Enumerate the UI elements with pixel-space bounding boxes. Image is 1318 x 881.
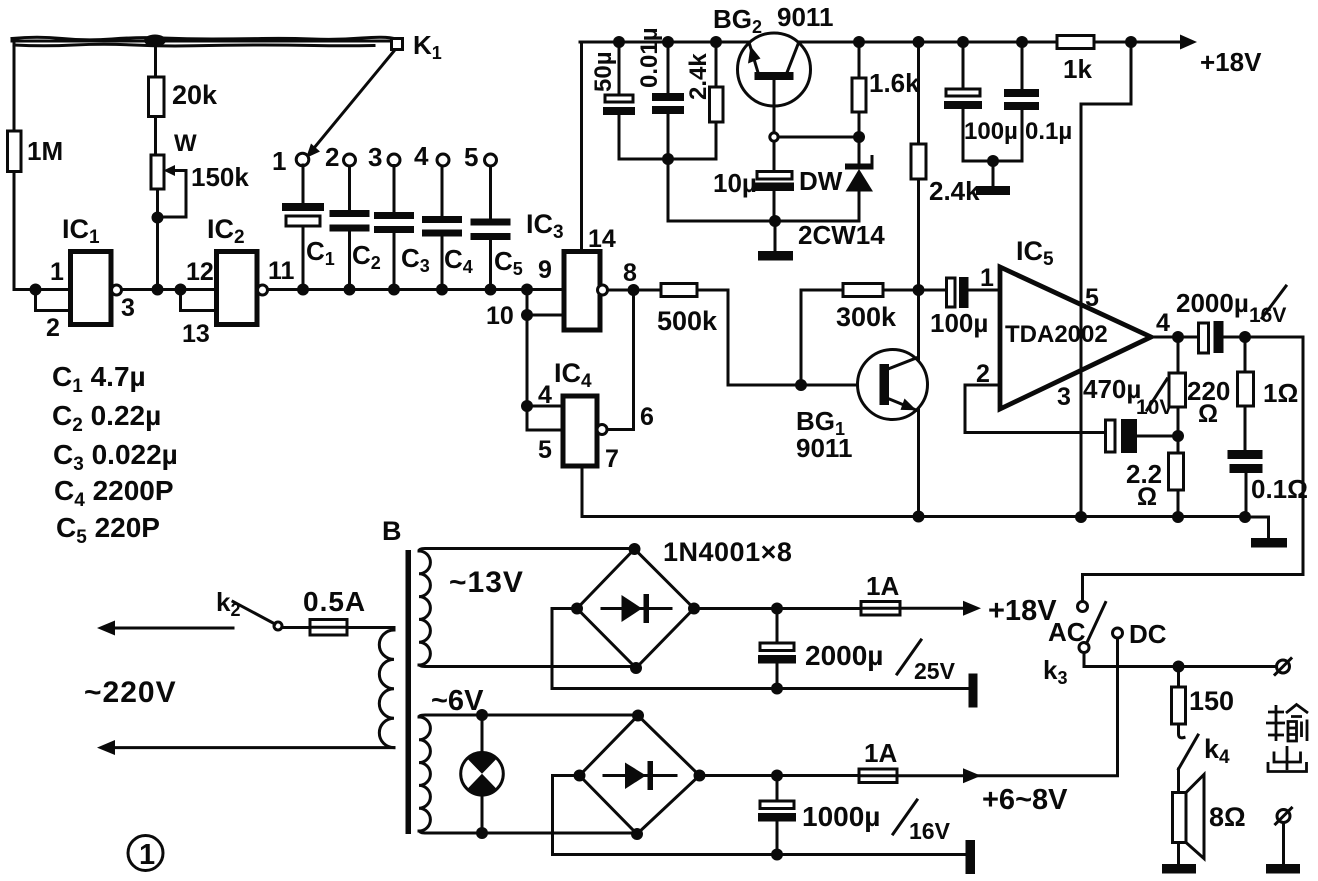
resistor 300k	[836, 284, 897, 333]
svg-text:~13V: ~13V	[449, 566, 524, 599]
svg-text:5: 5	[1085, 284, 1099, 312]
svg-text:100µ: 100µ	[930, 308, 988, 338]
wire: 300k to 100u input cap	[883, 289, 947, 292]
junction: bridge2 bottom	[631, 828, 643, 840]
svg-text:AC: AC	[1048, 617, 1086, 647]
capacitor C2	[330, 166, 381, 290]
wire: fuse to +18V arrow	[900, 601, 981, 616]
wire: IC1 pin2 loop	[36, 290, 71, 311]
svg-text:2000µ: 2000µ	[805, 640, 883, 671]
op-amp block IC3	[526, 209, 600, 330]
label: chu (output) character 2	[1268, 746, 1307, 772]
capacitor C5	[471, 166, 523, 290]
wire: 13V top lead	[419, 549, 635, 552]
svg-text:1: 1	[50, 258, 64, 286]
switch k4	[1179, 724, 1231, 769]
svg-text:500k: 500k	[657, 306, 718, 336]
wire: k2 to fuse	[283, 626, 310, 629]
junction: rail after 1k	[1125, 36, 1137, 48]
junction: feedback node	[1172, 430, 1184, 442]
wire: amp ground rail	[919, 515, 1245, 518]
svg-text:C3 0.022µ: C3 0.022µ	[53, 439, 178, 475]
ground (speaker)	[1162, 864, 1196, 874]
wire: 20k from hatched bus	[154, 43, 157, 77]
junction: 1000u ground	[771, 849, 783, 861]
resistor 1M	[8, 131, 64, 172]
wire: BG2 collector column (2.4k-b / BG1)	[917, 42, 920, 517]
bridge rectifier 2	[580, 716, 700, 835]
junction: lamp bottom	[476, 827, 488, 839]
wire: 6V bottom lead	[419, 831, 637, 833]
junction: rail/0.01u	[662, 36, 674, 48]
resistor 2.4k (BG2 base)	[685, 42, 723, 159]
svg-text:C4 2200P: C4 2200P	[54, 475, 174, 511]
junction: rail/0.1u	[1016, 36, 1028, 48]
wire: mains line top with arrow	[97, 621, 233, 636]
wire: rail step down to IC5 pin5	[1081, 42, 1131, 519]
svg-text:10µ: 10µ	[713, 168, 757, 198]
svg-text:5: 5	[538, 436, 552, 464]
wire: IC3 pin14 to +18V rail	[580, 42, 583, 252]
figure number 1	[128, 836, 163, 872]
junction: rail/2.4k-b	[913, 36, 925, 48]
indicator lamp	[461, 715, 504, 833]
svg-text:4: 4	[414, 141, 429, 171]
wire: IC5 pin2 feedback loop	[965, 385, 1106, 433]
svg-text:2: 2	[46, 314, 60, 342]
wire: mains line bottom with arrow	[97, 740, 394, 755]
junction: bus/C1	[297, 284, 309, 296]
node: base ring junction	[770, 133, 778, 141]
svg-text:50µ: 50µ	[590, 51, 617, 92]
svg-text:1: 1	[980, 264, 994, 292]
svg-text:Ω: Ω	[1198, 400, 1218, 428]
svg-text:+18V: +18V	[988, 595, 1057, 627]
capacitor 2000u/16V (output)	[1176, 286, 1303, 353]
inverter bubble IC1 output	[112, 285, 122, 295]
svg-text:14: 14	[588, 225, 616, 253]
speaker 8ohm	[1173, 769, 1246, 866]
junction: bridge2 right	[694, 770, 706, 782]
svg-text:W: W	[174, 130, 197, 157]
svg-text:4: 4	[538, 381, 552, 409]
junction: bridge1 left	[571, 603, 583, 615]
junction: ground tap node	[769, 215, 781, 227]
junction: output/150 node	[1173, 661, 1185, 673]
junction: gnd/2.2ohm	[1172, 511, 1184, 523]
wire: output feed to k3	[1083, 337, 1304, 602]
svg-text:3: 3	[368, 142, 382, 172]
svg-text:1000µ: 1000µ	[802, 801, 880, 832]
node: contact 1	[272, 146, 309, 176]
svg-text:10: 10	[486, 302, 514, 330]
svg-text:DC: DC	[1129, 619, 1167, 649]
svg-text:0.1Ω: 0.1Ω	[1251, 474, 1308, 504]
bridge rectifier 1 (1N4001x8)	[577, 537, 792, 668]
capacitor 2000u/25V	[758, 609, 956, 689]
wire: bridge1 positive output	[694, 607, 861, 610]
wire: 1M to bus	[14, 172, 36, 290]
fuse 1A (6V)	[859, 738, 897, 783]
svg-text:~6V: ~6V	[431, 685, 484, 717]
output terminal (ground)	[1276, 808, 1292, 865]
wire: +18V rail	[580, 41, 1190, 44]
wire: base node riser to 300k	[801, 290, 843, 385]
wire: left node down to IC4 pin5	[527, 290, 563, 431]
resistor 2.2 ohm	[1126, 436, 1184, 518]
svg-text:150: 150	[1189, 686, 1234, 716]
inverter bubble IC4 output	[597, 425, 607, 435]
junction: pot wiper to bottom	[152, 212, 164, 224]
junction: speaker-line node	[1239, 331, 1251, 343]
junction: pin10 tap	[521, 309, 533, 321]
junction: 2000u ground	[771, 683, 783, 695]
junction: bus / IC3-IC4 left node	[521, 284, 533, 296]
wire: 13V bottom lead	[419, 665, 636, 667]
junction: bus / IC2 pin12 node	[175, 284, 187, 296]
transformer primary winding	[379, 628, 394, 748]
resistor 220 ohm	[1169, 337, 1230, 436]
junction: filter cap 1000u tap	[771, 770, 783, 782]
switch K1 terminal	[392, 30, 442, 63]
resistor 1k	[1057, 36, 1094, 85]
wire: 6V top lead	[419, 715, 638, 717]
svg-text:300k: 300k	[836, 302, 897, 332]
junction: bus/C3	[388, 284, 400, 296]
wire: 20k to potentiometer	[154, 117, 157, 156]
ground (amp)	[1245, 517, 1287, 548]
junction: bus/C2	[344, 284, 356, 296]
wire: ring node to zener node	[778, 136, 859, 139]
ground (rail filter)	[976, 161, 1010, 195]
capacitor C3	[374, 166, 430, 290]
wire: IC4 pin4	[527, 405, 563, 408]
svg-text:~220V: ~220V	[84, 676, 177, 709]
junction: lamp top	[476, 709, 488, 721]
node: contact 2	[325, 142, 356, 172]
svg-text:12: 12	[186, 258, 214, 286]
svg-text:11: 11	[268, 257, 295, 285]
wire: zener bottom rail	[668, 220, 859, 223]
svg-text:9: 9	[538, 256, 552, 284]
svg-text:TDA2002: TDA2002	[1005, 321, 1108, 348]
svg-text:13: 13	[182, 320, 210, 348]
capacitor 50u	[590, 42, 635, 159]
junction: bridge2 top	[632, 710, 644, 722]
switch k2	[216, 587, 282, 630]
svg-text:0.1µ: 0.1µ	[1025, 118, 1072, 145]
wire: BG2 base down	[773, 80, 776, 133]
ground (BG2 section)	[758, 221, 793, 261]
svg-text:1A: 1A	[866, 571, 899, 601]
svg-text:9011: 9011	[777, 2, 833, 32]
wire: 500k to BG1 base node	[697, 290, 880, 385]
inverter bubble IC3 output	[598, 285, 608, 295]
svg-text:4: 4	[1156, 309, 1170, 337]
capacitor 10u	[713, 168, 794, 221]
fuse 0.5A	[303, 586, 366, 635]
junction: pin7/BG1 emitter node	[913, 511, 925, 523]
svg-text:C5 220P: C5 220P	[56, 512, 160, 548]
resistor 1 ohm	[1238, 337, 1299, 450]
capacitor 100u (input coupling)	[930, 277, 1000, 338]
junction: bridge1 top	[629, 543, 641, 555]
svg-text:Ω: Ω	[1137, 483, 1157, 511]
svg-text:6: 6	[640, 403, 654, 431]
inverter bubble IC2 output	[258, 285, 268, 295]
junction: 2.4k line / input node	[913, 284, 925, 296]
wire: filter caps common	[963, 160, 1022, 163]
junction: bus/C5	[485, 284, 497, 296]
wire: bridge1 negative to ground rail	[552, 609, 969, 689]
output terminal (hot)	[1275, 659, 1291, 675]
svg-text:1M: 1M	[27, 136, 63, 166]
svg-text:16V: 16V	[1249, 304, 1286, 327]
svg-text:B: B	[382, 516, 402, 546]
wire: k3 pole to output	[1084, 653, 1278, 667]
junction: output node	[1172, 331, 1184, 343]
svg-text:+18V: +18V	[1200, 47, 1262, 77]
junction: gnd/zobel	[1239, 511, 1251, 523]
op-amp IC5 TDA2002	[1000, 236, 1151, 409]
svg-text:C1 4.7µ: C1 4.7µ	[52, 361, 146, 397]
svg-text:1Ω: 1Ω	[1263, 378, 1298, 408]
node: contact 4	[414, 141, 449, 171]
zener diode DW 2CW14	[798, 137, 885, 250]
svg-text:C2 0.22µ: C2 0.22µ	[52, 400, 161, 436]
junction: pin4 tap	[521, 400, 533, 412]
capacitor 0.1 (zobel)	[1228, 450, 1309, 518]
switch k3 AC/DC	[1043, 602, 1167, 689]
wire: IC3 output to pin8 node	[608, 289, 662, 292]
svg-text:2.4k: 2.4k	[929, 176, 980, 206]
svg-text:1.6k: 1.6k	[869, 68, 920, 98]
resistor 2.4k (ripple filter)	[911, 144, 980, 206]
resistor 500k	[657, 284, 718, 337]
wire: IC4 output riser to pin8 node	[607, 290, 634, 430]
junction: rail/50u	[613, 36, 625, 48]
transformer secondary ~6V	[419, 685, 484, 831]
wire: 50u/0.01u/2.4k bottoms	[619, 158, 716, 161]
label: shu (output) character 1	[1266, 705, 1308, 742]
svg-text:1k: 1k	[1063, 54, 1092, 84]
svg-text:100µ: 100µ	[964, 118, 1018, 145]
svg-text:5: 5	[464, 142, 478, 172]
capacitor 100u (rail filter)	[944, 42, 1018, 161]
fuse 1A (18V)	[861, 571, 900, 615]
svg-text:0.5A: 0.5A	[303, 586, 366, 617]
capacitor 0.01u	[636, 27, 684, 159]
svg-text:2.4k: 2.4k	[685, 53, 712, 100]
switch K1 selector arrow	[306, 51, 394, 158]
svg-text:0.01µ: 0.01µ	[636, 27, 663, 88]
wire: top hatched bus from 1M to K1	[12, 35, 396, 47]
svg-text:2: 2	[325, 142, 339, 172]
junction: rail/1.6k	[853, 36, 865, 48]
svg-text:2CW14: 2CW14	[798, 220, 885, 250]
junction: bus / pot node	[152, 284, 164, 296]
svg-text:8Ω: 8Ω	[1209, 802, 1246, 832]
svg-text:3: 3	[121, 294, 135, 322]
resistor 1.6k	[852, 42, 920, 137]
wire: fuse to primary	[347, 626, 394, 629]
svg-text:7: 7	[605, 445, 619, 473]
svg-text:150k: 150k	[191, 162, 249, 192]
capacitor C4	[422, 166, 473, 290]
wire: main bus line	[121, 288, 564, 291]
capacitor 0.1u (rail filter)	[1004, 42, 1072, 161]
svg-text:470µ: 470µ	[1083, 374, 1141, 404]
ground (output terminal)	[1266, 864, 1300, 874]
ground terminal (18V rail)	[969, 674, 978, 708]
junction: BG1 base node	[795, 379, 807, 391]
svg-text:1: 1	[139, 839, 155, 871]
wire: ring to 10u	[773, 142, 776, 171]
svg-text:1: 1	[272, 146, 286, 176]
wire: IC3 pin10	[527, 314, 564, 317]
junction: filter ground node	[987, 155, 999, 167]
transistor BG1 9011	[796, 350, 928, 464]
capacitor 470u/10V (feedback)	[1083, 374, 1178, 453]
svg-text:+6~8V: +6~8V	[982, 784, 1068, 816]
transformer B core	[382, 516, 411, 834]
transformer secondary ~13V	[419, 551, 524, 665]
svg-text:1N4001×8: 1N4001×8	[663, 537, 792, 567]
wire: left branch down to 1M	[13, 43, 16, 131]
transistor BG2 9011	[713, 2, 833, 106]
svg-text:9011: 9011	[796, 433, 852, 463]
junction: bus/C4	[436, 284, 448, 296]
junction: bus left node	[30, 284, 42, 296]
wire: bridge2 positive output	[700, 774, 860, 777]
junction: bridge1 right	[688, 603, 700, 615]
resistor 20k	[149, 77, 219, 117]
capacitor 1000u/16V	[758, 776, 951, 855]
wire: IC1 pin1	[36, 288, 71, 291]
wire: IC4 pin7 to ground rail	[582, 466, 919, 517]
junction: bridge2 left	[574, 770, 586, 782]
svg-text:20k: 20k	[172, 80, 218, 110]
potentiometer W 150k	[151, 130, 249, 217]
wire: IC2 pin13 loop	[181, 290, 217, 311]
node: contact 5	[464, 142, 497, 172]
junction: zener top node	[853, 131, 865, 143]
node: contact 3	[368, 142, 400, 172]
op-amp block IC1	[62, 214, 111, 325]
resistor 150	[1172, 667, 1235, 725]
svg-text:8: 8	[623, 259, 637, 287]
wire: 6-8V line with arrow to DC contact	[897, 638, 1118, 783]
svg-text:DW: DW	[799, 166, 843, 196]
net +18V arrow	[1180, 35, 1262, 78]
wire: IC5 output pin4	[1151, 336, 1199, 339]
junction: rail/100u	[957, 36, 969, 48]
junction: filter cap 2000u tap	[771, 603, 783, 615]
junction: gnd/pin3	[1075, 511, 1087, 523]
junction: bridge1 bottom	[630, 662, 642, 674]
wire: bias node down	[667, 159, 670, 221]
svg-text:2000µ: 2000µ	[1176, 288, 1249, 318]
op-amp block IC4	[554, 358, 597, 466]
ground terminal (6V rail)	[966, 840, 976, 874]
junction: bias node	[662, 153, 674, 165]
svg-text:16V: 16V	[909, 818, 951, 844]
junction: pin8 node	[628, 284, 640, 296]
op-amp block IC2	[207, 214, 257, 325]
capacitor C1	[282, 165, 335, 290]
wire: bridge2 negative to ground rail	[553, 776, 967, 855]
svg-text:25V: 25V	[914, 658, 956, 684]
svg-text:3: 3	[1057, 383, 1071, 411]
wire: pot bottom to bus	[156, 189, 159, 290]
junction: rail/2.4k	[710, 36, 722, 48]
svg-text:1A: 1A	[864, 738, 897, 768]
